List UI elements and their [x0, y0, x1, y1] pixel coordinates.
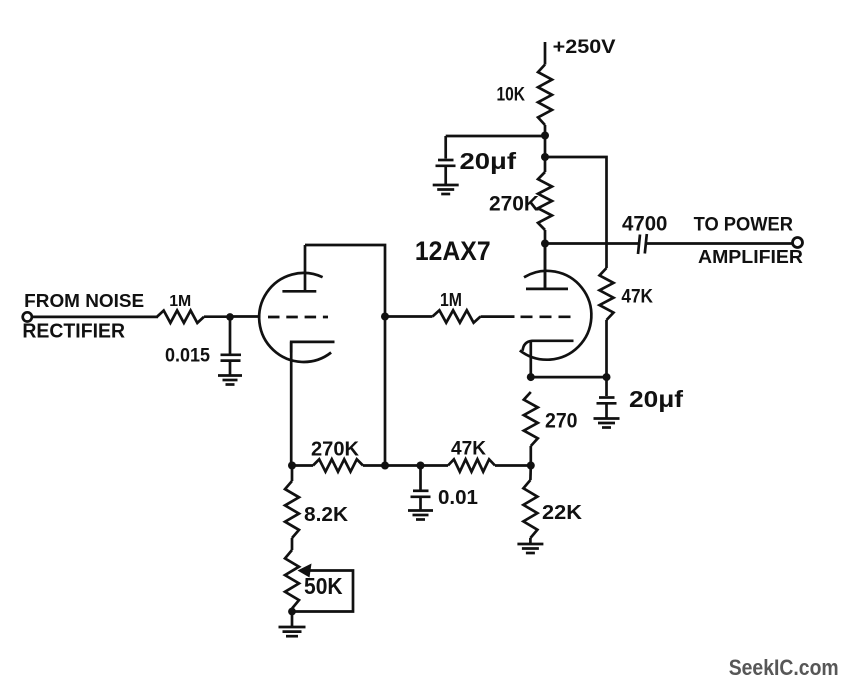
ground below 0.01	[408, 509, 433, 512]
resistor 47K (plate/divider right)	[600, 268, 614, 320]
V1b plate lead	[544, 244, 547, 289]
capacitor 4700 coupling plates	[638, 235, 640, 255]
svg-text:20μf: 20μf	[629, 386, 683, 412]
V1b plate bar	[526, 288, 568, 291]
svg-text:270K: 270K	[489, 193, 539, 216]
svg-text:10K: 10K	[497, 85, 526, 106]
wire 20uf right to ground	[605, 403, 608, 417]
ground below right 20uf	[594, 417, 620, 420]
input terminal circle	[23, 312, 32, 321]
svg-text:0.015: 0.015	[165, 345, 210, 367]
node D junction dot	[527, 373, 535, 381]
capacitor 0.015 lead	[229, 317, 232, 354]
wire 47K bottom to node E	[605, 320, 608, 377]
node F junction dot	[527, 462, 535, 470]
svg-text:FROM NOISE: FROM NOISE	[24, 291, 144, 311]
tube V1b envelope (right triode)	[520, 271, 592, 360]
svg-text:20μf: 20μf	[460, 148, 517, 174]
V1b grid dashed line	[521, 315, 573, 318]
power terminal +250V stub	[544, 42, 547, 65]
resistor 8.2K	[285, 481, 299, 538]
wire node G to 8.2K	[291, 466, 294, 482]
wire 10K bottom through node A to 270K top	[544, 125, 547, 172]
wire coupling cap to output terminal	[646, 242, 793, 245]
node E junction dot	[603, 373, 611, 381]
capacitor 20uf right plates	[599, 396, 615, 399]
svg-text:+250V: +250V	[553, 37, 616, 58]
resistor 270 cathode	[524, 392, 538, 446]
wire 8.2K to 50K pot	[291, 538, 294, 550]
node G junction dot	[288, 462, 296, 470]
svg-text:4700: 4700	[622, 213, 667, 236]
V1a grid wire from input node	[230, 315, 260, 318]
wire bottom rail right segment	[495, 464, 531, 467]
svg-text:8.2K: 8.2K	[304, 504, 349, 526]
node H junction dot (plate line bottom)	[381, 462, 389, 470]
resistor 1M input	[157, 311, 204, 323]
svg-text:22K: 22K	[542, 502, 583, 524]
ground below 22K	[517, 543, 543, 546]
svg-text:AMPLIFIER: AMPLIFIER	[698, 247, 803, 267]
wire wiper to bottom terminal (box path)	[292, 571, 353, 612]
svg-text:12AX7: 12AX7	[415, 236, 491, 266]
output terminal circle	[793, 238, 803, 248]
V1a cathode with hook	[291, 342, 334, 353]
V1a grid dashed line	[268, 316, 328, 319]
tube V1a envelope (left triode)	[259, 273, 331, 362]
svg-text:1M: 1M	[440, 290, 462, 310]
node I junction dot (0.01 cap)	[417, 462, 425, 470]
node A junction dot	[541, 132, 549, 140]
capacitor 20uf (supply filter) lead	[444, 136, 447, 159]
V1b grid wire from 1M	[481, 315, 515, 318]
capacitor 0.01 plates	[413, 489, 429, 492]
potentiometer 50K body	[285, 550, 299, 609]
wire V1a cathode down to bottom rail	[290, 342, 293, 466]
resistor 47K bottom (horizontal)	[448, 459, 495, 471]
resistor 270K (divider upper)	[538, 172, 552, 230]
wire 1M to node J	[204, 315, 230, 318]
svg-text:SeekIC.com: SeekIC.com	[729, 655, 839, 680]
resistor 270K feedback (horizontal)	[313, 459, 363, 471]
wire node C to coupling cap	[545, 242, 639, 245]
capacitor 0.015 plates	[221, 353, 242, 356]
svg-text:270: 270	[545, 410, 578, 433]
svg-text:0.01: 0.01	[438, 487, 478, 509]
wire node F to 22K	[529, 466, 532, 481]
wire 270K bottom through node C to V2 plate	[544, 230, 547, 288]
wire node G1 to 1M	[385, 315, 433, 318]
resistor 22K	[523, 480, 537, 538]
wire node P to ground	[291, 612, 294, 627]
svg-text:50K: 50K	[304, 573, 343, 599]
svg-text:TO POWER: TO POWER	[694, 214, 793, 236]
wire V1b cathode down to node D	[529, 341, 532, 377]
ground below 20uf	[433, 184, 459, 187]
V1a plate bar	[282, 290, 316, 293]
wire 0.015 to ground	[229, 361, 232, 375]
wire 0.01 to ground	[419, 497, 422, 510]
wire bottom rail middle segment	[363, 464, 448, 467]
wire bottom rail left segment	[292, 464, 313, 467]
wire V1a plate up over to vertical drop	[305, 245, 385, 466]
svg-text:RECTIFIER: RECTIFIER	[22, 321, 125, 343]
svg-text:270K: 270K	[311, 439, 360, 461]
svg-text:1M: 1M	[169, 293, 191, 310]
wire node D to node E	[531, 376, 607, 379]
wire 270 bottom to node F	[529, 446, 532, 466]
svg-text:47K: 47K	[451, 439, 486, 460]
wire node B right and down to 47K top	[545, 157, 607, 268]
wire node A to 20uf cap	[446, 135, 545, 138]
resistor 1M interstage	[433, 310, 481, 322]
capacitor 20uf plates	[438, 159, 454, 162]
wire 50K bottom to node P	[291, 609, 294, 612]
wire 20uf to ground	[444, 166, 447, 184]
ground below 0.015	[218, 374, 242, 377]
wire 22K to ground	[529, 538, 532, 543]
node C junction dot (V2 plate node)	[541, 240, 549, 248]
node P junction dot	[288, 608, 296, 616]
capacitor 0.01 lead	[419, 466, 422, 490]
potentiometer wiper arrow	[298, 564, 312, 578]
V1b cathode with hook	[523, 341, 574, 351]
ground below 50K	[279, 626, 306, 629]
node J junction dot	[226, 313, 234, 321]
capacitor 20uf cathode bypass lead	[605, 377, 608, 396]
wire input terminal to 1M	[32, 316, 158, 319]
node G1 junction dot (1M tap)	[381, 313, 389, 321]
svg-text:47K: 47K	[621, 287, 653, 308]
V1a plate lead	[304, 245, 307, 290]
resistor 10K (plate supply dropper)	[538, 65, 552, 126]
node B junction dot	[541, 153, 549, 161]
